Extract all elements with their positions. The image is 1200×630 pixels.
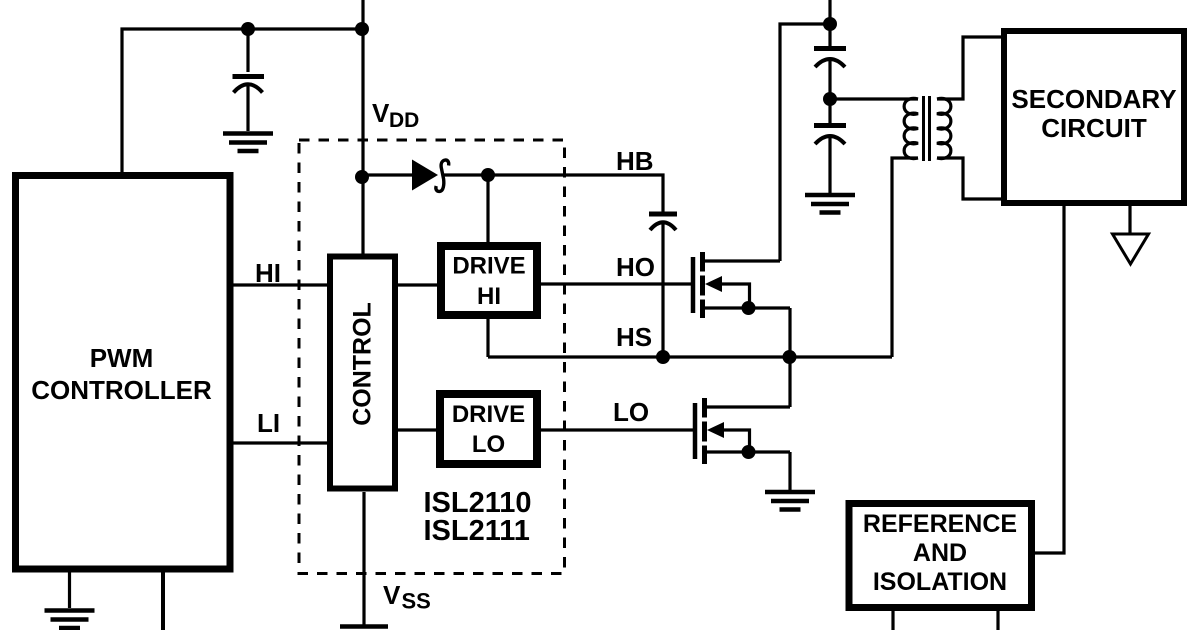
node junction bus/drain (823, 17, 837, 31)
wire secondary bottom to secondary circuit (937, 158, 1001, 199)
svg-text:CONTROLLER: CONTROLLER (31, 375, 212, 405)
dashed boundary ISL2110 (299, 140, 565, 574)
node junction Q1 body-source (742, 301, 756, 315)
ground G4 under PWM (45, 611, 95, 629)
output arrow (1113, 234, 1149, 264)
wire Q2 drain to HS (788, 357, 791, 407)
svg-text:ISOLATION: ISOLATION (873, 568, 1007, 596)
node junction cap branch (241, 22, 255, 36)
svg-text:REFERENCE: REFERENCE (863, 510, 1017, 538)
wire LI (231, 441, 327, 444)
transistor Q2 low-side NMOS (695, 398, 790, 464)
node junction HS/half-bridge (783, 350, 797, 364)
wire PWM ground pin (68, 572, 71, 608)
label VDD (372, 98, 419, 132)
wire diode anode (363, 173, 412, 176)
svg-text:SECONDARY: SECONDARY (1011, 84, 1176, 114)
svg-text:SS: SS (402, 589, 431, 614)
wire secondary to reference (1035, 206, 1064, 553)
transformer T1 primary winding (904, 98, 918, 158)
wire DRIVE HI supply drop (486, 175, 489, 243)
wire Q1 drain rail (780, 24, 830, 261)
wire LO net (541, 428, 695, 431)
svg-text:HI: HI (477, 283, 501, 310)
wire VSS pin (362, 492, 365, 625)
ground G5 VSS (340, 624, 388, 629)
node junction cap midpoint (823, 92, 837, 106)
ground G1 under C1 (223, 134, 273, 152)
diode D1 schottky (412, 160, 449, 192)
capacitor C1 decoupling at PWM (233, 29, 265, 131)
wire CONTROL to DRIVE LO (398, 428, 437, 431)
wire CONTROL to DRIVE HI (398, 283, 437, 286)
wire bus rail input (828, 0, 831, 46)
node junction diode branch (355, 170, 369, 184)
svg-text:CIRCUIT: CIRCUIT (1041, 113, 1147, 143)
svg-text:HS: HS (616, 322, 652, 352)
svg-text:V: V (383, 580, 401, 610)
wire Q1 source to HS (788, 308, 791, 357)
svg-text:CONTROL: CONTROL (349, 302, 377, 426)
svg-text:DRIVE: DRIVE (452, 401, 525, 428)
wire primary return to HS (892, 158, 918, 357)
node junction HB / DRIVE HI supply (481, 168, 495, 182)
wire cap midpoint to transformer primary (830, 97, 918, 100)
wire top rail from PWM to VDD line (122, 29, 363, 174)
svg-text:ISL2111: ISL2111 (424, 515, 530, 547)
ground G2 under bus caps (805, 195, 855, 213)
wire secondary top to secondary circuit (937, 37, 1001, 99)
wire HB net (443, 175, 663, 212)
svg-text:LO: LO (613, 397, 649, 427)
capacitor C4 bootstrap HB-HS (649, 214, 677, 357)
wire HI (231, 283, 327, 286)
transformer T1 secondary winding (937, 98, 951, 158)
transistor Q1 high-side NMOS (693, 252, 790, 318)
wire DRIVE HI to HS (486, 319, 489, 357)
wire VDD vertical rail (361, 0, 364, 255)
capacitor C2 bus upper (814, 49, 846, 124)
svg-text:PWM: PWM (90, 343, 154, 373)
svg-text:DD: DD (389, 109, 419, 132)
node junction rail/VDD (355, 22, 369, 36)
svg-text:DRIVE: DRIVE (452, 253, 525, 280)
svg-text:HB: HB (616, 146, 654, 176)
control block (330, 257, 395, 489)
transformer T1 core (924, 96, 930, 161)
wire HO net (541, 282, 691, 285)
node junction Q2 body-source (742, 445, 756, 459)
wire reference pin 1 (891, 611, 894, 630)
drive hi block (441, 246, 537, 315)
secondary circuit block (1004, 31, 1184, 203)
wire secondary output arrow lead (1128, 205, 1131, 234)
wire reference pin 2 (996, 611, 999, 630)
svg-text:LI: LI (257, 408, 280, 438)
reference and isolation block (849, 504, 1032, 608)
wire PWM bottom pin 2 (161, 572, 165, 630)
PWM controller block (16, 176, 231, 570)
drive lo block (440, 394, 537, 464)
svg-text:AND: AND (913, 539, 967, 567)
capacitor C3 bus lower (814, 126, 846, 194)
label ISL2110 ISL2111 (424, 487, 532, 547)
svg-text:V: V (372, 98, 390, 128)
node junction HS/bootstrap (656, 350, 670, 364)
svg-text:LO: LO (472, 431, 505, 458)
label VSS (383, 580, 431, 614)
svg-text:HO: HO (616, 252, 655, 282)
ground G3 under Q2 (765, 492, 815, 510)
wire HS net (488, 355, 892, 358)
wire Q2 source to ground (788, 452, 791, 490)
